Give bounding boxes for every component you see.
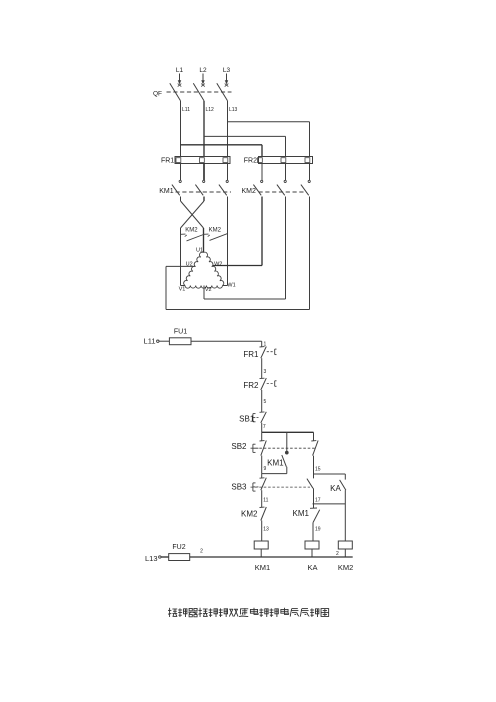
svg-text:2: 2	[200, 549, 203, 555]
svg-text:L11: L11	[182, 107, 190, 113]
svg-text:U2: U2	[186, 261, 193, 267]
svg-text:3: 3	[264, 369, 267, 375]
svg-text:V1: V1	[179, 287, 186, 293]
svg-text:KM2: KM2	[185, 228, 198, 234]
svg-text:KM1: KM1	[159, 188, 174, 195]
svg-text:QF: QF	[153, 91, 162, 98]
svg-text:FU2: FU2	[172, 544, 185, 551]
svg-text:KA: KA	[330, 484, 341, 493]
svg-text:W1: W1	[227, 283, 235, 289]
svg-text:W2: W2	[214, 261, 222, 267]
svg-text:5: 5	[264, 399, 267, 405]
svg-text:FR1: FR1	[161, 158, 174, 165]
svg-text:2: 2	[336, 551, 339, 557]
svg-text:L12: L12	[206, 107, 215, 113]
svg-text:L11: L11	[144, 337, 156, 346]
svg-text:KM1: KM1	[267, 458, 284, 467]
svg-text:V2: V2	[205, 287, 212, 293]
svg-text:FU1: FU1	[174, 329, 187, 336]
svg-text:KM2: KM2	[338, 563, 353, 572]
svg-text:KM2: KM2	[209, 228, 222, 234]
svg-text:7: 7	[263, 424, 266, 430]
svg-text:19: 19	[315, 527, 321, 533]
svg-text:FR2: FR2	[244, 158, 257, 165]
svg-text:L2: L2	[199, 67, 207, 74]
svg-text:L13: L13	[145, 554, 158, 563]
svg-text:KA: KA	[307, 563, 317, 572]
svg-text:KM1: KM1	[255, 563, 270, 572]
svg-text:KM1: KM1	[293, 509, 310, 518]
svg-text:KM2: KM2	[242, 188, 257, 195]
svg-text:SB3: SB3	[231, 482, 247, 491]
svg-text:SB2: SB2	[231, 442, 247, 451]
svg-text:FR2: FR2	[243, 381, 259, 390]
svg-text:13: 13	[263, 527, 269, 533]
svg-text:L1: L1	[176, 67, 184, 74]
svg-text:FR1: FR1	[243, 350, 259, 359]
svg-text:9: 9	[264, 466, 267, 472]
svg-text:17: 17	[315, 497, 321, 503]
svg-text:KM2: KM2	[241, 510, 258, 519]
svg-text:15: 15	[315, 467, 321, 473]
svg-text:U1: U1	[196, 248, 203, 254]
svg-text:L3: L3	[223, 67, 231, 74]
svg-text:11: 11	[263, 497, 268, 503]
svg-text:L13: L13	[229, 107, 238, 113]
svg-text:SB1: SB1	[239, 415, 255, 424]
